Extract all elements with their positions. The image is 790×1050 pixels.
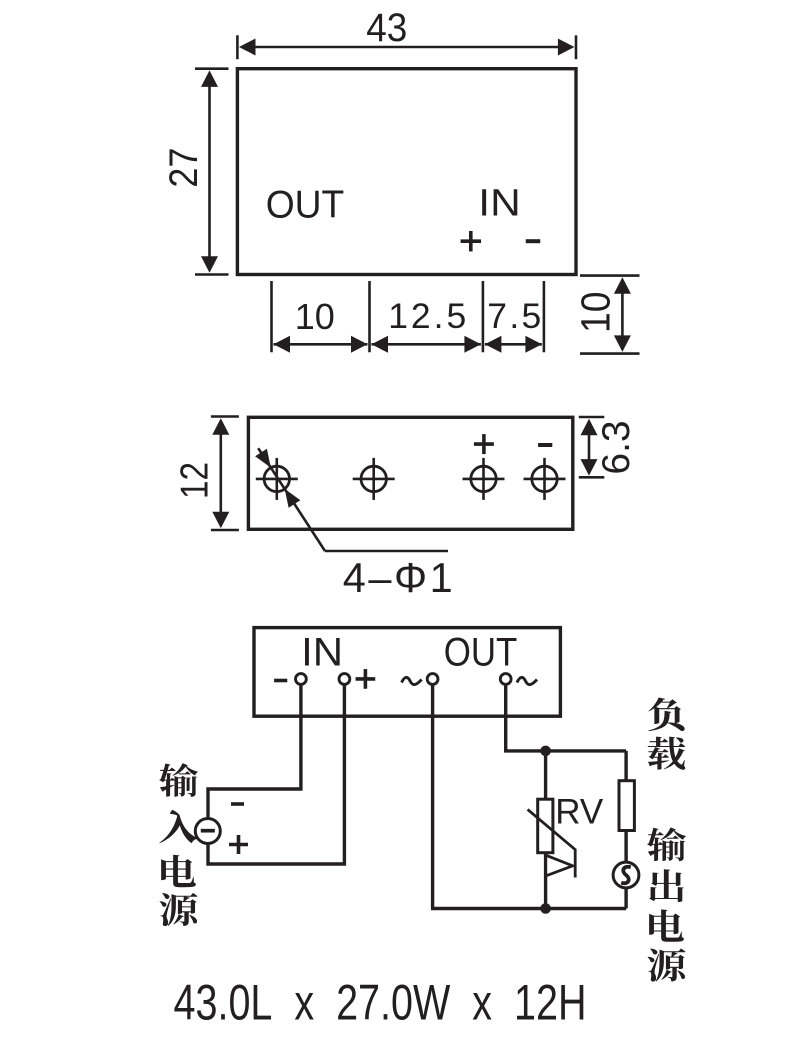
svg-text:10: 10 — [295, 296, 335, 337]
svg-text:12: 12 — [174, 462, 217, 499]
svg-text:OUT: OUT — [266, 183, 345, 226]
svg-text:IN: IN — [478, 182, 520, 224]
svg-text:43.0L x 27.0W x 12H: 43.0L x 27.0W x 12H — [174, 975, 587, 1031]
svg-text:6.3: 6.3 — [595, 420, 638, 474]
svg-text:RV: RV — [555, 793, 604, 832]
svg-text:27: 27 — [162, 148, 206, 188]
svg-text:10: 10 — [573, 292, 619, 334]
svg-text:OUT: OUT — [444, 631, 518, 675]
svg-text:43: 43 — [366, 6, 407, 50]
svg-text:12.5: 12.5 — [388, 296, 466, 336]
svg-text:4–Φ1: 4–Φ1 — [343, 554, 453, 601]
svg-text:IN: IN — [301, 631, 343, 675]
svg-text:7.5: 7.5 — [487, 296, 541, 336]
